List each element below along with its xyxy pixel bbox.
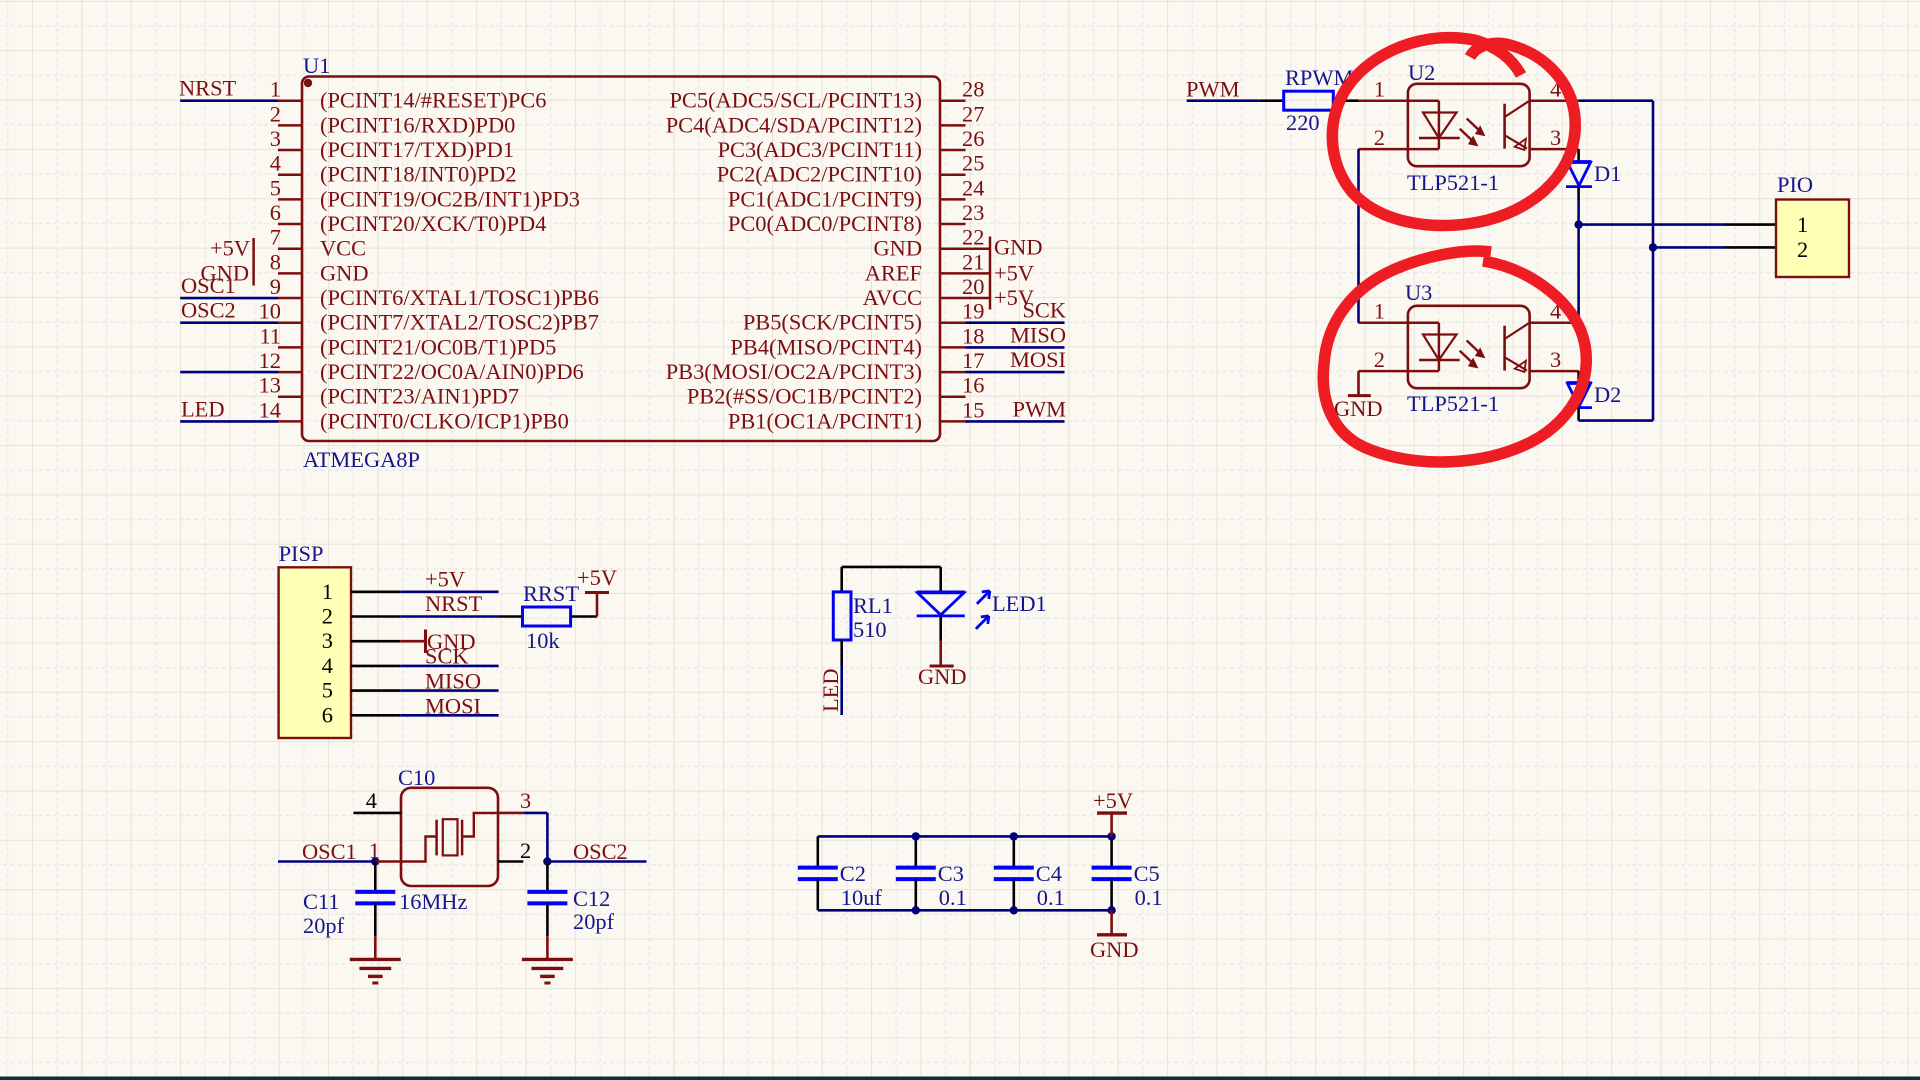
svg-text:14: 14 xyxy=(259,397,281,422)
svg-text:25: 25 xyxy=(962,151,984,176)
svg-text:PC1(ADC1/PCINT9): PC1(ADC1/PCINT9) xyxy=(728,186,922,211)
net label LED (vertical) xyxy=(818,668,843,712)
svg-text:2: 2 xyxy=(322,604,333,629)
svg-text:0.1: 0.1 xyxy=(939,885,967,910)
wire PISP pin2 NRST xyxy=(400,615,498,618)
svg-text:PC3(ADC3/PCINT11): PC3(ADC3/PCINT11) xyxy=(718,137,922,162)
junction cap bank bottom xyxy=(1107,906,1115,914)
designator RRST xyxy=(523,581,579,606)
wire LED xyxy=(180,420,278,423)
wire PWM at U1 pin 15 xyxy=(966,420,1065,423)
svg-text:2: 2 xyxy=(270,101,281,126)
svg-text:TLP521-1: TLP521-1 xyxy=(1407,391,1499,416)
value 0.1 (C3) xyxy=(939,885,967,910)
svg-text:AREF: AREF xyxy=(865,260,922,285)
svg-text:4: 4 xyxy=(322,653,333,678)
svg-text:U2: U2 xyxy=(1408,60,1435,85)
svg-text:RRST: RRST xyxy=(523,581,579,606)
svg-text:U3: U3 xyxy=(1405,280,1432,305)
svg-text:GND: GND xyxy=(994,235,1043,260)
svg-text:OSC2: OSC2 xyxy=(181,298,236,323)
marker circle around U2 xyxy=(1332,38,1575,226)
svg-text:GND: GND xyxy=(1334,396,1383,421)
svg-text:OSC1: OSC1 xyxy=(181,273,236,298)
capacitor C11 xyxy=(355,862,395,937)
designator U1 xyxy=(303,53,330,78)
wire OSC1 xyxy=(278,860,375,863)
svg-text:5: 5 xyxy=(322,678,333,703)
svg-text:1: 1 xyxy=(369,838,380,863)
resistor RRST xyxy=(523,607,571,626)
wire RL1 bottom LED net xyxy=(840,640,843,715)
svg-text:PC4(ADC4/SDA/PCINT12): PC4(ADC4/SDA/PCINT12) xyxy=(666,112,922,137)
svg-text:D2: D2 xyxy=(1594,382,1621,407)
value 20pf (C11) xyxy=(303,913,345,938)
net label +5V (PISP pin1) xyxy=(425,567,465,592)
svg-text:2: 2 xyxy=(520,838,531,863)
designator RPWM xyxy=(1285,65,1354,90)
wire cap bank top rail xyxy=(818,835,1112,838)
wire PISP pin4 SCK xyxy=(400,665,498,668)
svg-text:MISO: MISO xyxy=(1010,322,1066,347)
microcontroller U1 ATMEGA8P body and pins xyxy=(259,77,985,442)
svg-text:16MHz: 16MHz xyxy=(399,889,467,914)
wire cap bank bottom rail xyxy=(818,909,1112,912)
svg-text:MOSI: MOSI xyxy=(425,693,481,718)
diode D2 xyxy=(1566,383,1592,408)
net label MOSI xyxy=(1010,347,1066,372)
designator D2 xyxy=(1594,382,1621,407)
wire U1 pin12 (unlabeled) xyxy=(180,371,278,374)
svg-text:220: 220 xyxy=(1286,110,1320,135)
capacitor C3 xyxy=(896,836,936,910)
designator U3 xyxy=(1405,280,1432,305)
wire RPWM to U2 pin 1 xyxy=(1333,99,1358,102)
svg-text:3: 3 xyxy=(1550,347,1561,372)
svg-text:17: 17 xyxy=(962,348,984,373)
svg-text:(PCINT19/OC2B/INT1)PD3: (PCINT19/OC2B/INT1)PD3 xyxy=(320,186,580,211)
power +5V at cap bank xyxy=(1093,788,1133,836)
svg-text:3: 3 xyxy=(520,788,531,813)
svg-text:22: 22 xyxy=(962,225,984,250)
svg-text:MOSI: MOSI xyxy=(1010,347,1066,372)
value ATMEGA8P xyxy=(303,447,420,472)
junction cap bank top xyxy=(1010,832,1018,840)
svg-text:NRST: NRST xyxy=(425,591,483,616)
ground GND at cap bank xyxy=(1090,910,1139,962)
power +5V at RRST xyxy=(577,565,617,593)
svg-text:(PCINT23/AIN1)PD7: (PCINT23/AIN1)PD7 xyxy=(320,384,519,409)
svg-text:OSC2: OSC2 xyxy=(573,839,628,864)
wire U2 pin2 to U3 pin1 xyxy=(1357,149,1360,323)
wire U3 pin3 to D2 xyxy=(1577,371,1580,382)
svg-text:PB1(OC1A/PCINT1): PB1(OC1A/PCINT1) xyxy=(728,408,922,433)
svg-text:15: 15 xyxy=(962,397,984,422)
optocoupler U2 xyxy=(1359,77,1579,167)
svg-text:1: 1 xyxy=(270,77,281,102)
value 510 xyxy=(853,617,887,642)
svg-text:8: 8 xyxy=(270,249,281,274)
designator C5 xyxy=(1134,861,1160,886)
ground earth at C12 xyxy=(522,936,573,983)
svg-text:AVCC: AVCC xyxy=(863,285,922,310)
svg-text:TLP521-1: TLP521-1 xyxy=(1407,170,1499,195)
svg-text:10k: 10k xyxy=(526,628,560,653)
wire PWM to RPWM xyxy=(1187,99,1284,102)
svg-text:D1: D1 xyxy=(1594,161,1621,186)
wire RRST to +5V xyxy=(571,593,597,617)
designator C11 xyxy=(303,889,340,914)
svg-text:4: 4 xyxy=(366,788,377,813)
ground GND at U3 pin2 xyxy=(1334,396,1383,421)
svg-text:16: 16 xyxy=(962,373,984,398)
svg-text:11: 11 xyxy=(259,323,281,348)
connector PIO xyxy=(1776,200,1849,278)
svg-text:(PCINT17/TXD)PD1: (PCINT17/TXD)PD1 xyxy=(320,137,514,162)
svg-text:GND: GND xyxy=(1090,937,1139,962)
svg-text:4: 4 xyxy=(270,151,281,176)
wire MOSI at U1 pin 17 xyxy=(966,371,1065,374)
svg-text:10uf: 10uf xyxy=(841,885,883,910)
svg-text:26: 26 xyxy=(962,126,984,151)
svg-text:NRST: NRST xyxy=(179,76,237,101)
value 10uf (C2) xyxy=(841,885,883,910)
svg-text:27: 27 xyxy=(962,101,984,126)
svg-text:LED1: LED1 xyxy=(992,591,1047,616)
svg-text:PC2(ADC2/PCINT10): PC2(ADC2/PCINT10) xyxy=(717,162,922,187)
svg-text:PWM: PWM xyxy=(1186,77,1240,102)
wire node A to PIO pin1 xyxy=(1579,223,1776,226)
svg-text:2: 2 xyxy=(1797,237,1808,262)
value 20pf (C12) xyxy=(573,909,615,934)
value TLP521-1 (U2) xyxy=(1407,170,1499,195)
wire OSC1 xyxy=(180,297,278,300)
svg-text:5: 5 xyxy=(270,175,281,200)
svg-text:(PCINT6/XTAL1/TOSC1)PB6: (PCINT6/XTAL1/TOSC1)PB6 xyxy=(320,285,599,310)
marker circle around U3 xyxy=(1323,251,1586,462)
svg-text:6: 6 xyxy=(270,200,281,225)
optocoupler U3 xyxy=(1359,299,1579,388)
svg-text:23: 23 xyxy=(962,200,984,225)
svg-text:(PCINT14/#RESET)PC6: (PCINT14/#RESET)PC6 xyxy=(320,88,546,113)
net label LED xyxy=(181,396,225,421)
led LED1 xyxy=(917,591,990,629)
svg-text:(PCINT16/RXD)PD0: (PCINT16/RXD)PD0 xyxy=(320,112,515,137)
wire NRST to RRST xyxy=(499,615,523,618)
svg-text:+5V: +5V xyxy=(210,236,250,261)
value 10k xyxy=(526,628,560,653)
value 0.1 (C4) xyxy=(1037,885,1065,910)
junction cap bank top xyxy=(912,832,920,840)
wire RL1 top to LED1 top xyxy=(842,567,941,592)
svg-text:510: 510 xyxy=(853,617,887,642)
wire SCK at U1 pin 19 xyxy=(966,321,1065,324)
wire node B to PIO pin2 xyxy=(1653,246,1776,249)
svg-text:PC0(ADC0/PCINT8): PC0(ADC0/PCINT8) xyxy=(728,211,922,236)
svg-text:7: 7 xyxy=(270,225,281,250)
svg-text:19: 19 xyxy=(962,299,984,324)
capacitor C2 xyxy=(798,836,838,910)
svg-text:PB4(MISO/PCINT4): PB4(MISO/PCINT4) xyxy=(730,334,922,359)
net label OSC1 xyxy=(181,273,236,298)
designator D1 xyxy=(1594,161,1621,186)
svg-text:+5V: +5V xyxy=(994,260,1034,285)
value 0.1 (C5) xyxy=(1135,885,1163,910)
svg-text:VCC: VCC xyxy=(320,236,366,261)
designator RL1 xyxy=(853,593,893,618)
wire U3 pin2 to GND xyxy=(1357,371,1360,396)
junction cap bank bottom xyxy=(1010,906,1018,914)
svg-text:GND: GND xyxy=(873,236,922,261)
net label OSC2 xyxy=(181,298,236,323)
svg-text:(PCINT18/INT0)PD2: (PCINT18/INT0)PD2 xyxy=(320,162,517,187)
svg-text:(PCINT0/CLKO/ICP1)PB0: (PCINT0/CLKO/ICP1)PB0 xyxy=(320,408,569,433)
svg-text:U1: U1 xyxy=(303,53,330,78)
crystal C10 xyxy=(354,788,532,886)
ground GND at LED1 xyxy=(918,664,967,689)
svg-text:2: 2 xyxy=(1374,347,1385,372)
net label MISO xyxy=(1010,322,1066,347)
svg-text:PB3(MOSI/OC2A/PCINT3): PB3(MOSI/OC2A/PCINT3) xyxy=(666,359,922,384)
svg-text:20: 20 xyxy=(962,274,984,299)
svg-text:(PCINT20/XCK/T0)PD4: (PCINT20/XCK/T0)PD4 xyxy=(320,211,546,236)
wire PISP pin5 MISO xyxy=(400,689,498,692)
wire U2 pin4 to right bus xyxy=(1579,99,1653,102)
net label NRST xyxy=(179,76,237,101)
svg-text:1: 1 xyxy=(1374,299,1385,324)
junction cap bank bottom xyxy=(912,906,920,914)
svg-text:C12: C12 xyxy=(573,886,610,911)
designator C2 xyxy=(840,861,866,886)
svg-text:C5: C5 xyxy=(1134,861,1160,886)
svg-text:(PCINT7/XTAL2/TOSC2)PB7: (PCINT7/XTAL2/TOSC2)PB7 xyxy=(320,310,599,335)
svg-text:C2: C2 xyxy=(840,861,866,886)
node OSC2 junction xyxy=(543,857,551,865)
wire D2 to bottom bus xyxy=(1579,408,1653,421)
svg-text:1: 1 xyxy=(1797,212,1808,237)
svg-text:2: 2 xyxy=(1374,125,1385,150)
svg-text:PWM: PWM xyxy=(1013,396,1067,421)
svg-text:PB5(SCK/PCINT5): PB5(SCK/PCINT5) xyxy=(743,310,922,335)
svg-text:(PCINT22/OC0A/AIN0)PD6: (PCINT22/OC0A/AIN0)PD6 xyxy=(320,359,584,384)
svg-text:+5V: +5V xyxy=(577,565,617,590)
svg-text:RL1: RL1 xyxy=(853,593,893,618)
svg-text:3: 3 xyxy=(322,628,333,653)
svg-text:+5V: +5V xyxy=(425,567,465,592)
svg-text:9: 9 xyxy=(270,274,281,299)
svg-text:C10: C10 xyxy=(398,765,435,790)
wire OSC2 xyxy=(180,321,278,324)
svg-text:SCK: SCK xyxy=(425,644,469,669)
designator C12 xyxy=(573,886,610,911)
svg-text:3: 3 xyxy=(1550,125,1561,150)
svg-text:GND: GND xyxy=(918,664,967,689)
svg-text:0.1: 0.1 xyxy=(1135,885,1163,910)
svg-text:(PCINT21/OC0B/T1)PD5: (PCINT21/OC0B/T1)PD5 xyxy=(320,334,556,359)
svg-text:1: 1 xyxy=(1374,77,1385,102)
resistor RL1 xyxy=(833,592,851,640)
designator U2 xyxy=(1408,60,1435,85)
connector PISP body and pins xyxy=(279,567,401,738)
svg-text:20pf: 20pf xyxy=(303,913,345,938)
net label PWM xyxy=(1013,396,1067,421)
designator LED1 xyxy=(992,591,1047,616)
value 16MHz xyxy=(399,889,467,914)
svg-text:1: 1 xyxy=(322,579,333,604)
svg-text:ATMEGA8P: ATMEGA8P xyxy=(303,447,420,472)
svg-text:28: 28 xyxy=(962,77,984,102)
wire node A to U3 pin4 xyxy=(1577,225,1580,323)
svg-text:GND: GND xyxy=(320,260,369,285)
value 220 xyxy=(1286,110,1320,135)
wire MISO at U1 pin 18 xyxy=(966,346,1065,349)
diode D1 xyxy=(1566,162,1592,187)
net label PWM (input) xyxy=(1186,77,1240,102)
capacitor C4 xyxy=(994,836,1034,910)
svg-text:20pf: 20pf xyxy=(573,909,615,934)
designator C4 xyxy=(1036,861,1062,886)
net label MISO (PISP pin5) xyxy=(425,668,481,693)
svg-text:PC5(ADC5/SCL/PCINT13): PC5(ADC5/SCL/PCINT13) xyxy=(669,88,922,113)
designator C3 xyxy=(938,861,964,886)
wire U2 pin3 to D1 xyxy=(1577,149,1580,161)
wire right bus vertical xyxy=(1652,101,1655,421)
svg-text:LED: LED xyxy=(181,396,225,421)
wire NRST xyxy=(180,99,278,102)
svg-text:12: 12 xyxy=(259,348,281,373)
value TLP521-1 (U3) xyxy=(1407,391,1499,416)
svg-text:0.1: 0.1 xyxy=(1037,885,1065,910)
svg-text:10: 10 xyxy=(259,299,281,324)
net label NRST (PISP pin2) xyxy=(425,591,483,616)
svg-text:21: 21 xyxy=(962,249,984,274)
svg-text:PB2(#SS/OC1B/PCINT2): PB2(#SS/OC1B/PCINT2) xyxy=(687,384,922,409)
svg-text:18: 18 xyxy=(962,323,984,348)
svg-text:C4: C4 xyxy=(1036,861,1062,886)
wire crystal pin3 to OSC2 xyxy=(523,813,547,862)
capacitor C12 xyxy=(527,862,567,937)
capacitor C5 xyxy=(1092,836,1132,910)
svg-text:C11: C11 xyxy=(303,889,340,914)
designator PISP xyxy=(279,541,324,566)
wire PISP pin3 to GND xyxy=(400,640,425,643)
wire OSC2 xyxy=(547,860,646,863)
wire LED1 to GND xyxy=(939,616,942,666)
wire PISP pin6 MOSI xyxy=(400,714,498,717)
ground GND bar at PISP pin3 xyxy=(426,629,476,654)
svg-text:+5V: +5V xyxy=(1093,788,1133,813)
svg-text:3: 3 xyxy=(270,126,281,151)
svg-text:6: 6 xyxy=(322,702,333,727)
designator PIO xyxy=(1777,172,1813,197)
svg-text:24: 24 xyxy=(962,175,984,200)
svg-text:C3: C3 xyxy=(938,861,964,886)
ground earth at C11 xyxy=(350,936,401,983)
svg-text:PIO: PIO xyxy=(1777,172,1813,197)
net label OSC1 (crystal) xyxy=(302,839,357,864)
resistor RPWM xyxy=(1284,91,1334,110)
node OSC1 junction xyxy=(371,857,379,865)
svg-text:MISO: MISO xyxy=(425,668,481,693)
net label SCK (PISP pin4) xyxy=(425,644,469,669)
wire PISP pin1 +5V xyxy=(400,590,498,593)
svg-text:PISP: PISP xyxy=(279,541,324,566)
wire D1 to node A xyxy=(1577,187,1580,225)
net label SCK xyxy=(1022,298,1066,323)
designator C10 xyxy=(398,765,435,790)
node A junction xyxy=(1574,220,1582,228)
net label OSC2 (crystal) xyxy=(573,839,628,864)
junction cap bank top xyxy=(1107,832,1115,840)
svg-text:13: 13 xyxy=(259,373,281,398)
node B junction xyxy=(1649,243,1657,251)
net label MOSI (PISP pin6) xyxy=(425,693,481,718)
svg-text:LED: LED xyxy=(818,668,843,712)
bottom taskbar edge xyxy=(0,1077,1920,1080)
power tie +5V/GND to U1 pins 7-8 xyxy=(200,236,253,286)
svg-text:SCK: SCK xyxy=(1022,298,1066,323)
power tie GND/+5V/+5V to U1 pins 22-21-20 xyxy=(966,235,1043,310)
